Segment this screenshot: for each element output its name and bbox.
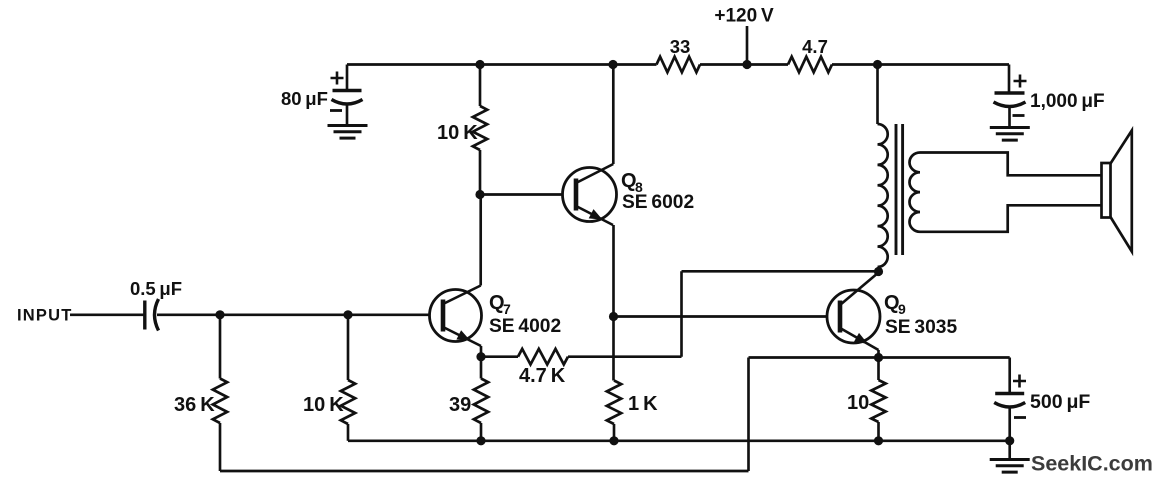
transformer T1 secondary winding	[909, 153, 920, 232]
wire 39 lower lead	[480, 423, 483, 441]
svg-text:INPUT: INPUT	[17, 307, 73, 325]
ground below 80uF	[328, 124, 368, 127]
wire 10 upper lead	[877, 358, 880, 381]
node +120V junction	[742, 60, 751, 69]
resistor 39	[474, 379, 488, 424]
wire 4.7K to feedback riser	[568, 355, 682, 358]
wire 10K-lower to ground row	[347, 424, 350, 441]
svg-text:39: 39	[449, 394, 471, 416]
wire 36K lower lead	[219, 423, 222, 471]
wire feedback top row y271	[682, 270, 879, 273]
transformer T1 primary winding	[878, 124, 888, 267]
svg-text:4.7: 4.7	[802, 36, 828, 57]
node Q7 emitter	[476, 352, 485, 361]
wire top rail segment D (transformer to 1000uF)	[878, 63, 1010, 66]
resistor 10	[871, 380, 885, 422]
wire 39 upper lead	[480, 357, 483, 379]
svg-text:10: 10	[847, 392, 869, 414]
svg-text:SE 4002: SE 4002	[489, 316, 561, 337]
wire 80uF stem	[346, 65, 349, 91]
capacitor C 500uF	[995, 392, 1024, 396]
svg-text:80 μF: 80 μF	[281, 88, 328, 109]
wire secondary bottom to voicecoil	[920, 205, 1102, 232]
wire 1K lower lead	[613, 424, 616, 441]
wire Q8 base	[480, 193, 563, 196]
svg-text:1,000 μF: 1,000 μF	[1030, 91, 1105, 112]
svg-text:4.7 K: 4.7 K	[519, 365, 566, 387]
svg-text:33: 33	[670, 36, 691, 57]
wire 80uF to ground	[346, 105, 349, 125]
wire Q7 emitter to 4.7K	[481, 355, 518, 358]
node transformer-primary top	[873, 60, 882, 69]
wire +120V stem	[746, 26, 749, 65]
wire Q7 collector vertical	[479, 195, 482, 286]
svg-text:500 μF: 500 μF	[1030, 391, 1090, 413]
ground below 1000uF	[990, 126, 1030, 129]
svg-text:+120 V: +120 V	[714, 6, 774, 27]
resistor 10K (upper)	[473, 106, 487, 150]
wire 1000uF stem lower	[1008, 108, 1011, 128]
node Q9 emitter	[874, 353, 883, 362]
transformer T1 core	[896, 124, 903, 255]
capacitor C 1000uF	[995, 91, 1025, 95]
node top rail at 10K	[475, 60, 484, 69]
node ground row at 39	[476, 436, 485, 445]
wire 10 lower lead	[877, 422, 880, 441]
node Q9 base tap	[609, 312, 618, 321]
minus sign 80uF	[330, 109, 342, 112]
resistor 10K lower	[341, 380, 355, 424]
resistor 33 (33 ohm)	[657, 57, 701, 73]
node input row at 36K	[215, 310, 224, 319]
transistor Q7	[430, 290, 482, 342]
wire 500uF node to ground	[1008, 441, 1011, 459]
wire transformer primary bottom lead	[877, 267, 880, 272]
resistor 4.7 (4.7 ohm)	[788, 57, 832, 73]
svg-text:0.5 μF: 0.5 μF	[130, 278, 182, 299]
svg-text:10 K: 10 K	[437, 122, 478, 144]
wire 500uF stem upper	[1008, 358, 1011, 394]
wire 10K-lower upper lead	[347, 315, 350, 380]
wire input left	[70, 313, 144, 316]
node Q8 base / Q7 collector	[475, 190, 484, 199]
wire Q9 emitter short	[877, 350, 880, 358]
resistor 1K	[607, 381, 621, 425]
resistor 4.7K	[518, 349, 568, 365]
speaker LS1 cone	[1111, 131, 1132, 252]
svg-text:1 K: 1 K	[628, 393, 658, 415]
node ground row at 500uF	[1005, 436, 1014, 445]
svg-text:9: 9	[898, 301, 906, 317]
node top rail at Q8 collector	[608, 60, 617, 69]
node ground row at 1K	[609, 436, 618, 445]
svg-text:SE 3035: SE 3035	[885, 317, 957, 338]
wire 1000uF stem upper	[1008, 65, 1011, 93]
capacitor 0.5uF right curved plate	[155, 299, 159, 331]
wire Q9 base row	[614, 315, 828, 318]
node ground row at 10	[874, 436, 883, 445]
wire ground row	[348, 439, 1010, 442]
svg-text:SE 6002: SE 6002	[622, 192, 694, 213]
svg-text:7: 7	[503, 301, 511, 317]
svg-text:36 K: 36 K	[174, 394, 215, 416]
plus sign 500uF	[1013, 375, 1026, 388]
svg-text:10 K: 10 K	[303, 394, 344, 416]
capacitor 0.5uF left plate	[143, 301, 146, 330]
wire top rail segment B (33 to 4.7)	[700, 63, 788, 66]
wire Q7 emitter short	[480, 346, 483, 357]
wire top rail segment A (80uF to 33)	[347, 63, 657, 66]
wire 10K-top upper lead	[479, 65, 482, 107]
wire 10K-top lower lead	[479, 150, 482, 195]
minus sign 500uF	[1014, 416, 1026, 419]
node Q9 collector / transformer bottom	[874, 267, 883, 276]
transistor Q8	[563, 168, 617, 222]
svg-text:SeekIC.com: SeekIC.com	[1031, 452, 1152, 476]
node input row at 10K-lower	[343, 310, 352, 319]
wire Q8 collector vertical	[612, 65, 615, 165]
wire secondary top to voicecoil	[920, 153, 1102, 176]
speaker LS1 driver	[1102, 163, 1111, 218]
plus sign 1000uF	[1014, 75, 1027, 88]
wire Q9 emitter row	[749, 356, 1010, 359]
wire 500uF stem lower	[1008, 408, 1011, 441]
wire transformer primary top lead	[876, 65, 879, 125]
capacitor C 80uF	[333, 89, 362, 93]
wire input to Q7 base	[157, 313, 430, 316]
plus sign 80uF	[331, 72, 344, 85]
ground below 500uF	[990, 458, 1030, 461]
wire bottom feedback	[220, 470, 749, 473]
resistor 36K	[213, 379, 227, 424]
wire 36K upper lead	[219, 315, 222, 379]
wire Q8 emitter vertical down	[612, 225, 615, 381]
wire top rail segment C (4.7 to transformer)	[832, 63, 878, 66]
transistor Q9	[827, 290, 880, 343]
minus sign 1000uF	[1013, 114, 1025, 117]
wire feedback riser x748	[747, 358, 750, 472]
wire feedback riser x681	[680, 271, 683, 356]
